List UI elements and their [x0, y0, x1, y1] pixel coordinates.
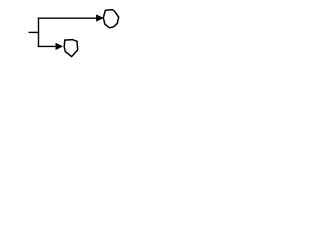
entry tick wire [29, 31, 40, 33]
top branch wire [38, 17, 98, 19]
bottom arrowhead [56, 43, 63, 50]
node N1 (top polygon) [103, 10, 118, 28]
top arrowhead [96, 15, 103, 22]
node N2 (bottom polygon) [64, 40, 78, 57]
bottom branch wire [38, 45, 57, 47]
branch vertical wire [38, 18, 40, 48]
